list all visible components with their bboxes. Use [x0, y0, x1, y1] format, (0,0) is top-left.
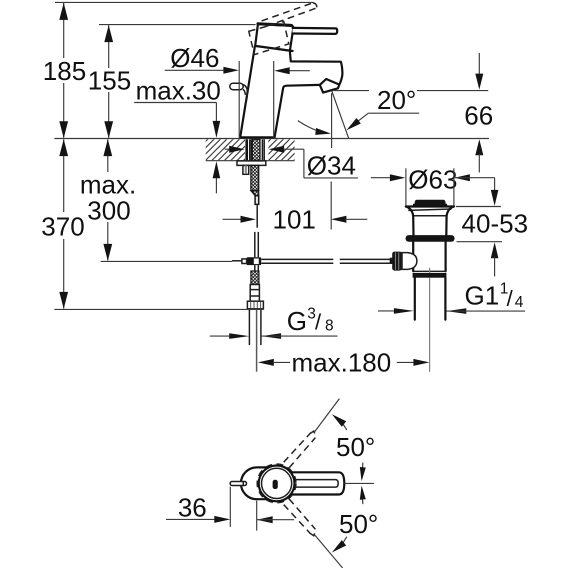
svg-text:G1: G1: [465, 280, 500, 310]
svg-text:20°: 20°: [377, 85, 416, 115]
40-53 extension lines: [456, 206, 501, 208]
solid 50deg reference line upper: [314, 399, 340, 433]
max.30 lower arrow below counter: [215, 176, 217, 193]
G3/8 dimension arrows at pipe: [210, 335, 235, 337]
coupling line and ring: [413, 270, 445, 272]
svg-text:185: 185: [43, 56, 86, 86]
dashed head outline (lever raised position): [249, 22, 289, 55]
dashed raised lever end cap: [313, 3, 317, 8]
hose end tube: [255, 196, 259, 205]
bottom view: body circle: [259, 466, 295, 502]
pop-up lever knob (knurled, black): [390, 258, 393, 264]
G1 1/4 dimension arrows at tailpipe: [378, 310, 400, 312]
svg-text:Ø63: Ø63: [408, 164, 457, 194]
counter hatching left block: [186, 139, 277, 161]
drain body walls: [412, 242, 414, 271]
bottom view: lever top view: [291, 472, 344, 494]
drain O-ring (black): [406, 235, 455, 242]
svg-text:G: G: [287, 306, 307, 336]
20deg slanted spray line: [332, 91, 349, 138]
svg-text:370: 370: [41, 212, 84, 242]
pop-up pull rod knob behind spout: [230, 83, 243, 90]
bottom view: lever centerline: [344, 482, 374, 484]
155 reference line (solid lever height datum): [99, 24, 256, 26]
bottom view: dashed lever at +50deg: [284, 431, 317, 468]
lever handle (horizontal position): [292, 28, 337, 34]
bottom view: dashed lever at -50deg: [284, 499, 317, 536]
20deg leader: [368, 112, 419, 114]
bottom view: pull rod pin: [230, 482, 246, 486]
max.300 bottom reference line (pop-up rod level): [101, 260, 232, 262]
threaded section below clamp: [251, 271, 259, 285]
pop-up rod clamp block: [247, 257, 262, 265]
bottom view: lever inner slot: [292, 480, 338, 488]
svg-text:66: 66: [464, 100, 493, 130]
drain centerline: [429, 268, 431, 273]
dimension 155 vertical line: [108, 25, 110, 68]
20deg angle arc arrow (left): [298, 121, 325, 133]
bottom view: spout capsule outline: [241, 467, 272, 499]
flexible supply hose (braided): [251, 165, 259, 190]
drain plug cap (black): [415, 200, 446, 206]
dimension 101: [223, 218, 243, 220]
svg-text:50°: 50°: [339, 509, 378, 539]
dimension 370 vertical line: [63, 140, 65, 213]
pull rod curve: [243, 85, 248, 102]
aerator outlet (beak): [320, 79, 340, 93]
bottom view: inner circle: [262, 468, 292, 498]
lower 50deg terminal arrow at horizontal: [361, 497, 364, 504]
top reference line (tip of raised lever, 185 datum): [55, 1, 313, 3]
dimension max.180: [258, 359, 274, 366]
svg-text:max.30: max.30: [136, 76, 221, 106]
clamp screw: [232, 260, 242, 262]
counter hatching right block: [249, 139, 340, 161]
svg-text:101: 101: [273, 205, 316, 235]
svg-text:300: 300: [87, 196, 130, 226]
counter top line: [54, 138, 489, 140]
vertical reference at spout tip: [331, 93, 333, 148]
pop-up rod upper section: [254, 232, 256, 257]
Ø46 right arrow: [287, 70, 310, 72]
linkage horizontal rod: [261, 258, 333, 260]
drain flange top edge: [406, 205, 454, 207]
svg-text:40-53: 40-53: [462, 209, 529, 239]
Ø46 extension lines: [238, 61, 240, 138]
flange inner lines: [408, 209, 451, 210]
supply pipe centerline: [256, 309, 258, 372]
upper 50deg arc arrow at slant line: [342, 422, 347, 430]
svg-text:/: /: [315, 310, 322, 335]
dashed raised lever top line: [262, 3, 314, 21]
right channel lines: [261, 139, 263, 160]
pop-up rod below clamp: [254, 265, 256, 271]
svg-text:Ø34: Ø34: [307, 151, 356, 181]
connector body: [250, 285, 259, 302]
370 bottom reference line: [54, 308, 263, 310]
dashed raised lever bottom line: [266, 8, 316, 26]
36 extension lines: [229, 487, 231, 527]
G3/8 coupling nut (ribbed): [247, 301, 263, 309]
Ø63 extension lines: [405, 168, 407, 205]
mounting nut: [243, 165, 249, 174]
dimension 40-53: [494, 178, 496, 191]
mounting washer plate: [237, 161, 266, 166]
ball joint housing: [402, 253, 417, 270]
supply pipe walls: [248, 309, 250, 345]
svg-text:8: 8: [325, 317, 334, 334]
mounting bolt (dark) in counter hole: [245, 139, 248, 160]
outlet spray reference line: [332, 90, 369, 92]
tailpipe walls: [414, 278, 416, 320]
label Ø63 with arrows: [371, 177, 392, 179]
svg-text:/: /: [507, 286, 514, 311]
svg-text:50°: 50°: [336, 432, 375, 462]
upper 50deg terminal arrow at horizontal: [361, 463, 364, 470]
bottom view: dashed escutcheon circle: [257, 464, 296, 503]
faucet axis line segment: [256, 205, 258, 228]
svg-text:36: 36: [178, 492, 207, 522]
bottom view: cartridge keyway: [273, 480, 278, 489]
hose taper: [251, 191, 259, 196]
faucet head (cartridge housing): [290, 49, 293, 52]
svg-text:max.180: max.180: [292, 348, 392, 378]
flange sides: [406, 207, 414, 236]
left channel lines: [249, 139, 251, 160]
lower 50deg arc arrow at slant line: [342, 537, 347, 545]
svg-text:155: 155: [88, 66, 131, 96]
dimension 66: [478, 53, 480, 75]
dimension max.300 vertical line: [107, 140, 109, 173]
counter bottom line: [206, 160, 295, 162]
svg-text:4: 4: [515, 294, 524, 311]
solid 50deg reference line lower: [314, 534, 343, 568]
threaded shank (braided) through counter: [252, 139, 260, 160]
svg-text:Ø46: Ø46: [170, 43, 219, 73]
dimension 185 vertical line: [63, 3, 65, 58]
label Ø34 with leader: [225, 148, 231, 150]
faucet body and spout outline: [240, 46, 342, 137]
